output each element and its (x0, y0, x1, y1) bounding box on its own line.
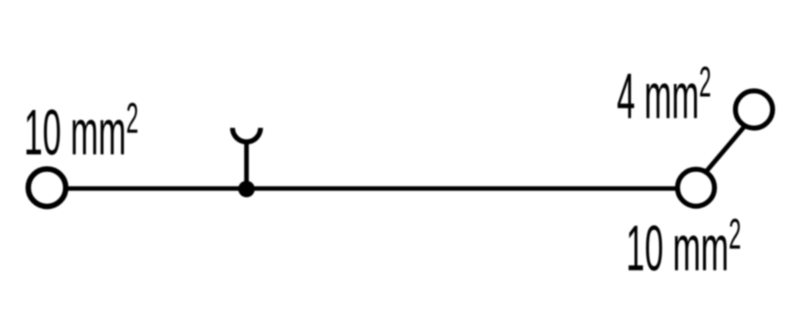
terminal circle right lower (678, 169, 715, 206)
test-tap stem wire (244, 142, 249, 190)
junction dot (238, 181, 255, 198)
label 4 mm2 upper right (618, 67, 711, 119)
wire branch diagonal (706, 126, 745, 172)
wire main horizontal (47, 186, 696, 191)
label 10 mm2 lower right (629, 219, 740, 271)
label 10 mm2 left (27, 103, 138, 155)
terminal circle left (28, 169, 66, 207)
terminal circle right upper (735, 91, 772, 128)
test-tap arc (233, 128, 261, 142)
